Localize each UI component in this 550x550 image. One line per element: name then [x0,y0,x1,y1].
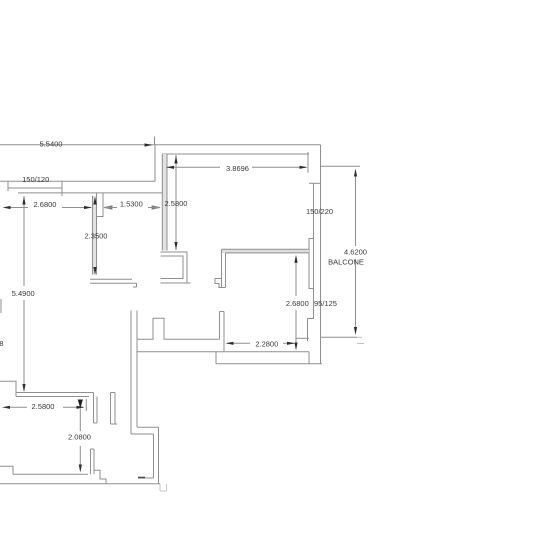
bottom-left room bottom inner left [0,466,88,474]
wall right outer edge [320,145,322,364]
wall hall inner line [18,192,162,194]
dimension 4.6200 top arrow [354,169,357,177]
wall bottom-left room top inner [16,396,89,398]
wall between hall and soggiorno edges [162,154,167,251]
balcone bottom edge tail [357,336,362,338]
wall left jamb of camera [222,249,226,287]
window sill tick camera [296,337,309,339]
bottom-left room bottom inner right [139,477,154,479]
balcone top edge [321,165,360,167]
dimension 4.6200 balcone line [355,171,357,332]
svg-text:150/120: 150/120 [22,175,49,184]
svg-text:2.6800: 2.6800 [34,200,57,209]
dimension 5.5400 arrow [145,143,153,146]
wall top-right room inner top [162,153,309,155]
window 150/120 left jamb [7,181,9,191]
dimension 1.5300 right arrow [148,206,160,209]
dimension 5.5400 extension tick [154,137,156,146]
svg-text:2.5800: 2.5800 [165,199,188,208]
bottom-left room right wall [154,427,159,483]
svg-text:2.5800: 2.5800 [32,402,55,411]
svg-text:2.6800: 2.6800 [286,299,309,308]
wall top outer edge [0,144,321,146]
corridor left wall outer [130,311,132,435]
dimension 2.6800 camera bottom arrow [294,343,297,351]
svg-text:4.6200: 4.6200 [344,247,367,256]
dimension 2.5800 top arrow [174,156,177,164]
door jamb bottom wall [91,449,95,474]
door jamb hook bottom [215,279,226,288]
dimension 2.6800 camera top arrow [294,255,297,263]
dimension 3.8696 left arrow [166,166,174,169]
svg-text:150/220: 150/220 [306,207,333,216]
arrow mark dim 2.0800 top [78,400,83,409]
svg-text:2.2800: 2.2800 [255,339,278,348]
wall bottom outer edge [216,363,322,365]
dimension 5.4900 bottom arrow [22,384,25,392]
corridor left wall inner [136,311,138,428]
door jamb bracket top corridor [161,252,191,283]
svg-text:5.5400: 5.5400 [40,140,63,149]
corridor bottom step [131,427,159,434]
wall fragment left edge [0,299,2,313]
wall bottom right outer corner [308,352,310,364]
door sill left room [90,279,137,287]
wall right inner above window [313,183,315,238]
dimension 2.5800 bottom left arrow [2,406,10,409]
wall camera-sx / hall edges [93,193,97,275]
window right wall frame [309,239,314,289]
dimension 2.5800 bottom right arrow [77,406,85,409]
bottom-left room bottom outer [0,483,160,485]
dimension 3.8696 right extension [307,152,309,173]
door jamb left of 1.5300 opening [97,193,104,217]
dimension 2.2800 left arrow [226,342,234,345]
balcone bottom tick [357,343,364,345]
corridor bottom wall lower line [137,351,309,353]
step right of bottom door [94,470,106,483]
wall right below window jog [308,289,314,342]
wall bottom-left room top outer [0,381,94,396]
dimension 2.5800 bottom line [5,406,83,408]
window 150/120 right jamb [61,181,63,196]
svg-text:95/125: 95/125 [314,299,337,308]
wall stub left of camera [220,312,225,352]
wall upper-left vertical edge [154,145,156,181]
wall stub corridor entrance [111,393,118,425]
dimension 2.3500 bottom arrow [93,267,96,275]
dimension 5.4900 top arrow [22,197,25,205]
wall hall top line [0,180,155,182]
dimension 2.5800 bottom arrow [174,242,177,250]
dimension 1.5300 left arrow [104,206,117,209]
door 150/220 sill [309,182,321,184]
svg-text:1.5300: 1.5300 [120,199,143,208]
bottom outer tab [160,484,167,491]
svg-text:3.8696: 3.8696 [226,164,249,173]
dimension 3.8696 line [167,166,306,168]
dimension 2.6800 camera vertical line [295,258,297,343]
balcone bottom edge [321,336,358,338]
wall between soggiorno and camera (fill) [222,249,310,253]
dimension 5.4900 line [23,196,25,391]
dimension 2.6800 line [5,207,91,209]
svg-text:5.4900: 5.4900 [12,289,35,298]
dimension 2.5800 vertical line [175,155,177,250]
dimension 4.6200 bottom arrow [354,327,357,335]
window 150/120 mid line [8,187,62,189]
dimension 2.6800 right arrow [84,206,92,209]
wall between hall and soggiorno (fill) [162,154,167,251]
svg-text:2.0800: 2.0800 [68,433,91,442]
dimension 2.0800 line [79,409,81,471]
door jamb bottom-left room [94,393,98,424]
wall between soggiorno and camera edges [222,249,310,253]
wall camera-sx / hall (fill) [93,196,97,275]
extension tick [85,399,87,411]
svg-text:BALCONE: BALCONE [328,257,364,266]
svg-text:8: 8 [0,339,4,348]
dimension 3.8696 right arrow [300,166,308,169]
dimension 2.2800 line [227,342,294,344]
dimension 2.6800 left arrow [3,206,11,209]
dimension 2.0800 bottom arrow [79,465,82,473]
dimension 2.2800 right arrow [287,342,295,345]
dimension 2.3500 top arrow [93,197,96,205]
dark dash [138,477,145,479]
corridor bottom wall with notch [137,318,220,339]
svg-text:2.3500: 2.3500 [85,232,108,241]
wall bottom left jog [215,352,217,364]
